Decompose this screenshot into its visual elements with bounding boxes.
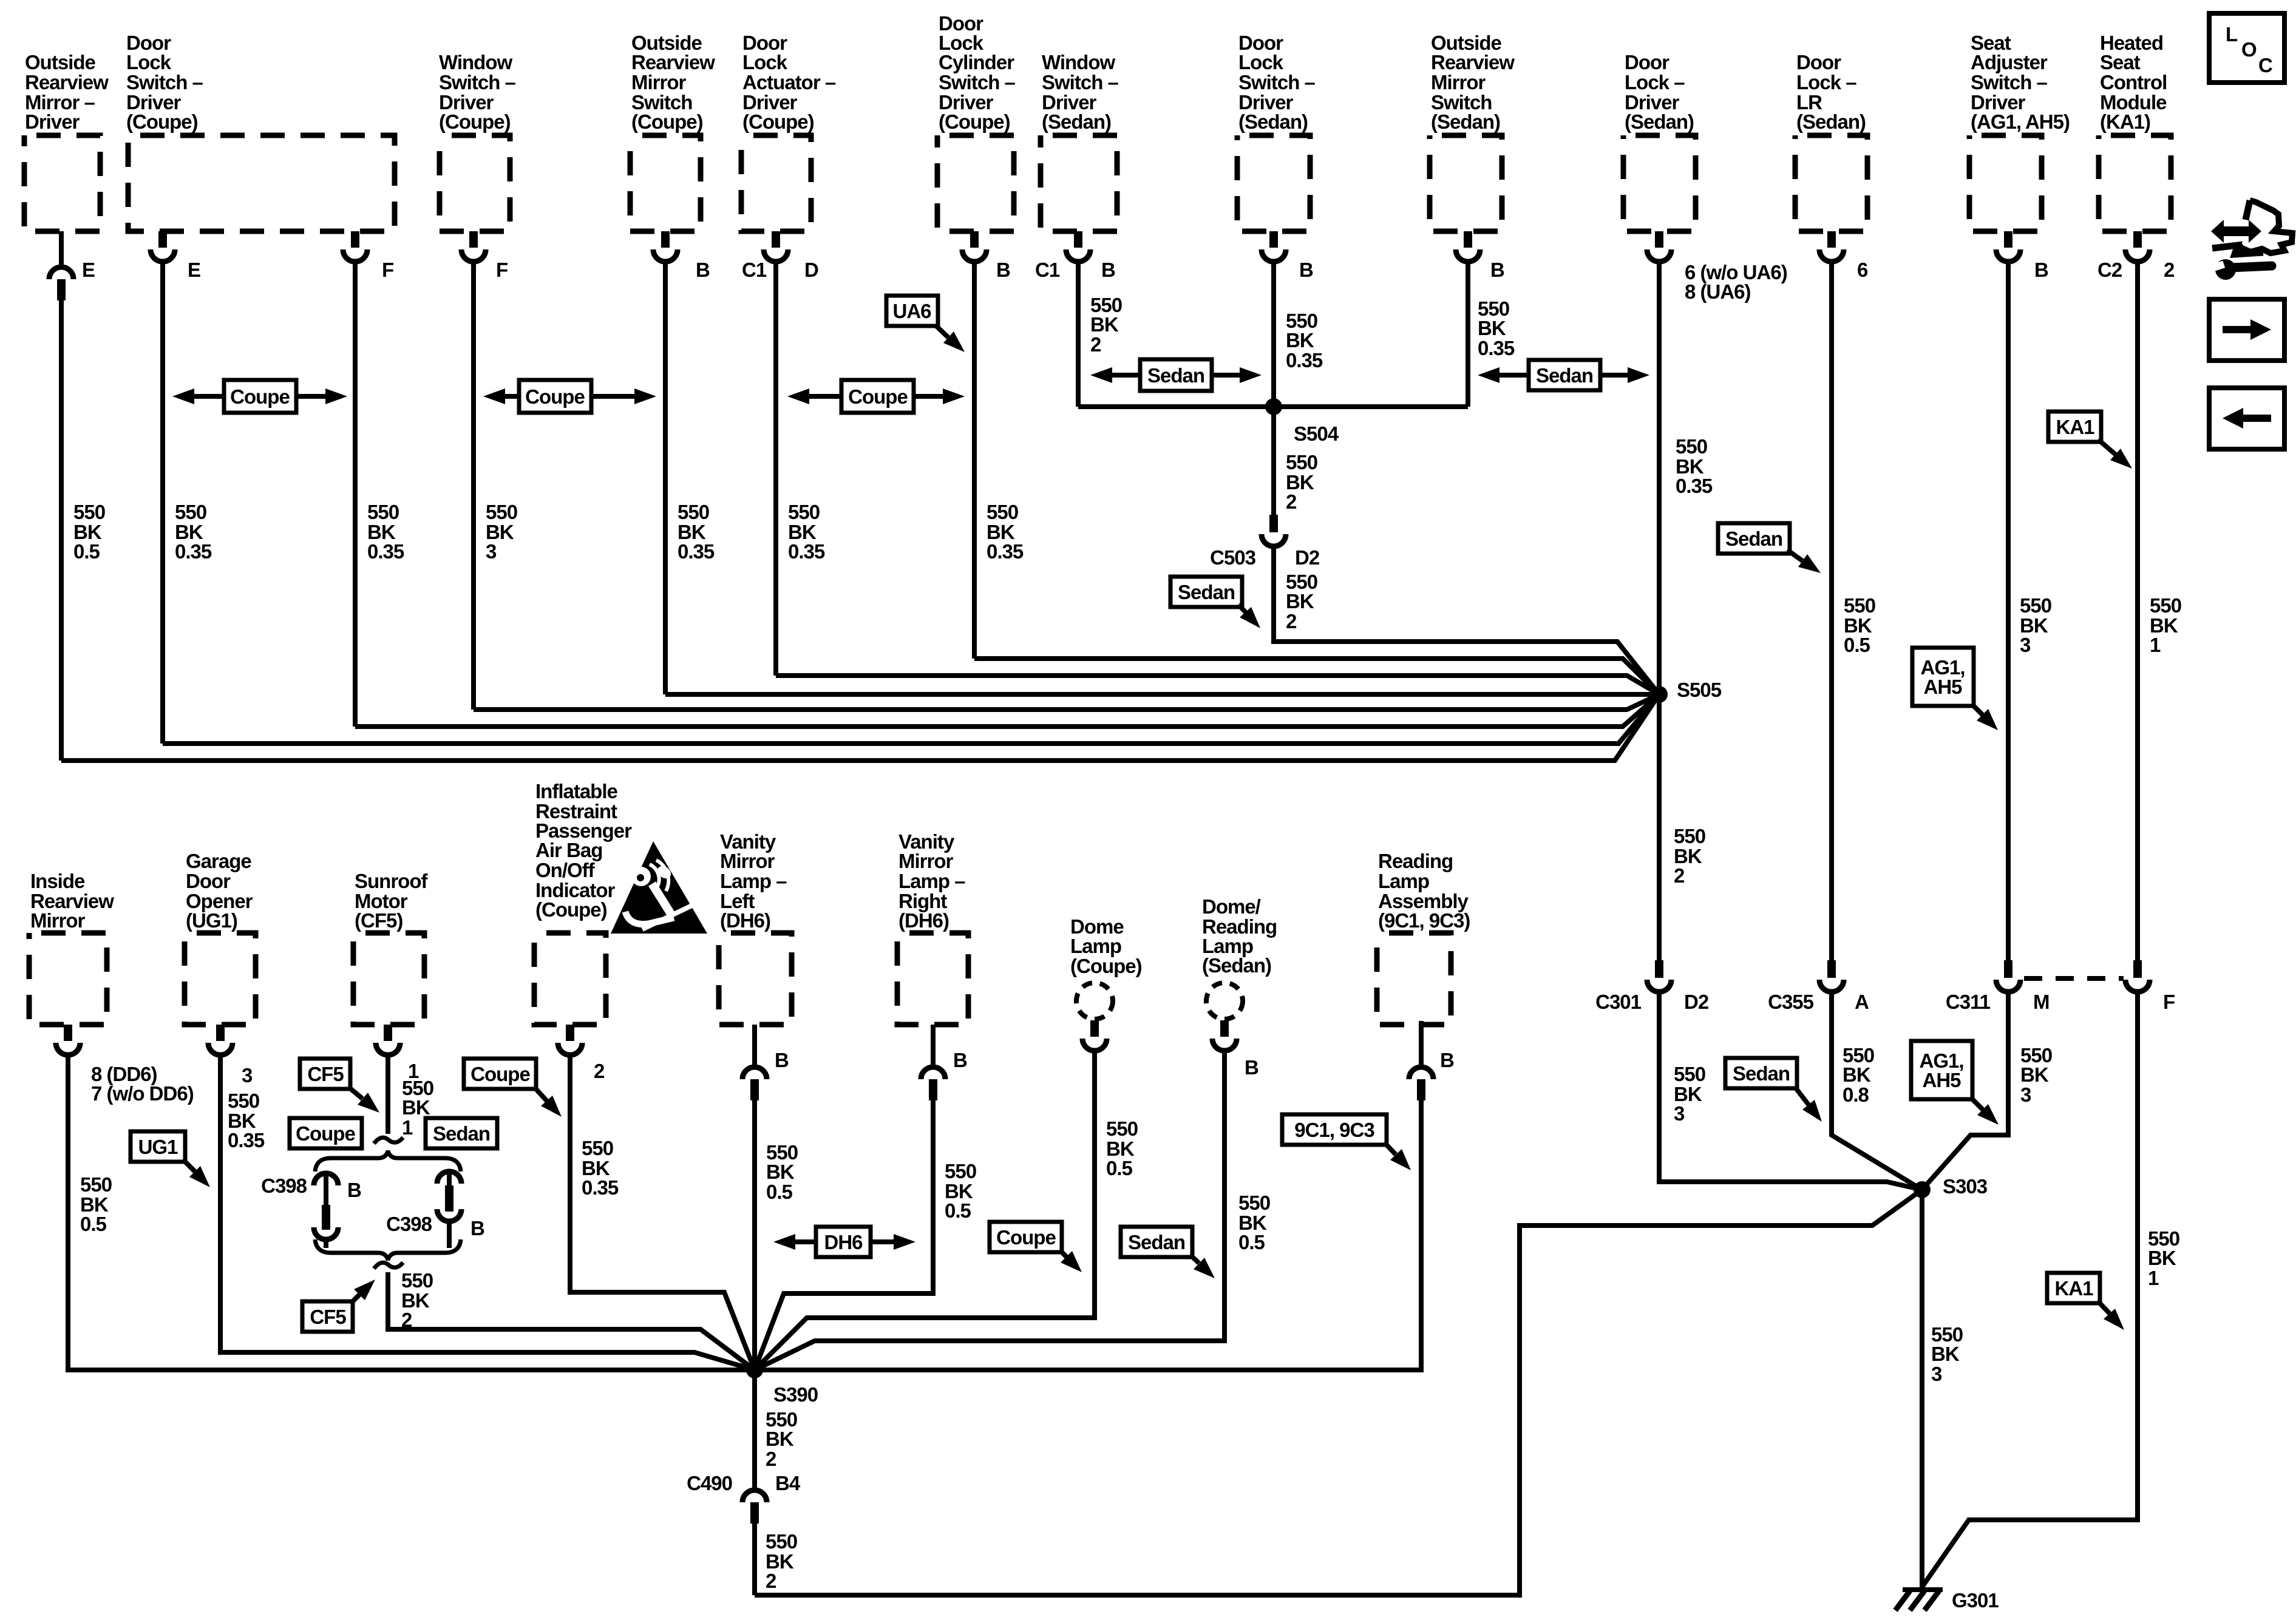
svg-text:Coupe: Coupe [230, 385, 290, 408]
svg-text:550: 550 [486, 501, 517, 523]
connector C398 right pair [447, 1171, 452, 1185]
harness repair icon (arrow, outline, wrench) [2223, 226, 2250, 236]
wire Door Lock Switch Coupe pin F [353, 263, 358, 727]
pin Vanity Mirror Lamp Left with connector [752, 1025, 757, 1065]
svg-text:Mirror: Mirror [1431, 71, 1486, 93]
svg-text:Lock –: Lock – [1796, 71, 1856, 93]
svg-text:(Sedan): (Sedan) [1431, 110, 1500, 133]
label box Sedan 2 with arrows [1500, 373, 1530, 378]
svg-text:8 (UA6): 8 (UA6) [1685, 280, 1751, 303]
svg-text:S303: S303 [1943, 1175, 1988, 1198]
svg-text:(Coupe): (Coupe) [126, 110, 198, 133]
svg-text:(Sedan): (Sedan) [1796, 110, 1866, 133]
svg-text:Lamp –: Lamp – [898, 870, 965, 892]
pin connector at x=2098 [1269, 231, 1278, 248]
wire bundle from Outside Rearview Mirror Switch Coupe [665, 692, 1659, 697]
svg-text:Rearview: Rearview [1431, 51, 1515, 73]
pin connector at x=1776 [1074, 231, 1082, 248]
svg-text:0.35: 0.35 [582, 1176, 619, 1199]
svg-text:550: 550 [945, 1160, 976, 1182]
svg-text:B: B [347, 1179, 361, 1201]
svg-text:Switch –: Switch – [1042, 71, 1119, 93]
splice S505 [1651, 686, 1668, 703]
svg-text:Sedan: Sedan [1128, 1231, 1185, 1253]
pin connector at x=268 [158, 231, 167, 248]
svg-text:DH6: DH6 [824, 1231, 863, 1253]
label box Coupe 3 with arrows [809, 394, 843, 399]
svg-text:Switch –: Switch – [1971, 71, 2048, 93]
svg-text:CF5: CF5 [307, 1063, 344, 1085]
label box UG1 [131, 1131, 185, 1162]
svg-text:550: 550 [73, 501, 105, 523]
pin Sunroof Motor [384, 1025, 392, 1041]
svg-text:0.35: 0.35 [1478, 337, 1515, 359]
wire Vanity Right to S390 [755, 1100, 933, 1370]
svg-text:F: F [496, 259, 508, 281]
splice S504 [1265, 398, 1282, 415]
label box KA1 lower [2047, 1273, 2100, 1303]
svg-text:Cylinder: Cylinder [939, 51, 1014, 73]
box Garage Door Opener UG1 [185, 933, 256, 1025]
svg-text:Driver: Driver [25, 110, 80, 133]
svg-text:3: 3 [2020, 634, 2031, 656]
svg-text:0.35: 0.35 [1286, 349, 1323, 371]
svg-text:BK: BK [1286, 590, 1314, 612]
svg-text:Mirror: Mirror [720, 850, 775, 872]
svg-text:CF5: CF5 [310, 1306, 346, 1328]
wire Door Lock Driver Sedan through S505 to C301 [1657, 263, 1662, 960]
svg-text:Garage: Garage [186, 850, 251, 872]
pin Air Bag Indicator [566, 1025, 574, 1041]
svg-text:S505: S505 [1677, 679, 1722, 701]
svg-text:0.35: 0.35 [678, 540, 715, 563]
svg-text:0.35: 0.35 [175, 540, 212, 563]
svg-text:S504: S504 [1294, 422, 1339, 445]
wire bundle into S505 from Door Lock Cylinder Switch [974, 659, 1659, 694]
label box Sedan pointing below C503 [1170, 577, 1242, 607]
svg-text:Sedan: Sedan [1733, 1062, 1790, 1085]
wire bundle from Door Lock Switch Coupe F [355, 694, 1659, 727]
svg-text:(Coupe): (Coupe) [1070, 955, 1142, 977]
pin Reading Lamp Assembly with connector [1419, 1021, 1424, 1065]
svg-text:Window: Window [439, 51, 512, 73]
svg-text:Inflatable: Inflatable [535, 780, 618, 802]
svg-text:C490: C490 [687, 1472, 732, 1494]
wire Outside Rearview Mirror Switch Sedan pin B to S504 line [1466, 263, 1470, 407]
pin connector at x=3017 [1827, 231, 1836, 248]
svg-text:0.35: 0.35 [987, 540, 1024, 563]
svg-text:(Sedan): (Sedan) [1042, 110, 1111, 133]
svg-text:Actuator –: Actuator – [742, 71, 836, 93]
svg-text:7 (w/o DD6): 7 (w/o DD6) [91, 1082, 194, 1105]
wire Vanity Left to S390 [752, 1100, 757, 1370]
svg-text:Air Bag: Air Bag [535, 839, 602, 861]
svg-text:UG1: UG1 [138, 1136, 178, 1158]
svg-text:3: 3 [486, 540, 497, 563]
svg-text:550: 550 [1674, 825, 1705, 847]
wire Sunroof Motor to split [385, 1056, 390, 1134]
svg-text:Control: Control [2100, 71, 2167, 93]
svg-text:Coupe: Coupe [996, 1226, 1056, 1249]
wire S303 to ground G301 [1920, 1190, 1924, 1588]
box Window Switch Driver Sedan [1041, 135, 1117, 231]
svg-text:C355: C355 [1768, 991, 1814, 1013]
label box AG1,AH5 upper [1912, 648, 1974, 706]
pin connector at x=1096 [661, 231, 670, 248]
svg-text:Lock: Lock [1238, 51, 1284, 73]
svg-text:550: 550 [2020, 594, 2051, 617]
box Door Lock LR Sedan [1795, 135, 1867, 231]
svg-text:2: 2 [766, 1570, 776, 1592]
svg-text:0.5: 0.5 [73, 540, 100, 563]
svg-text:3: 3 [242, 1064, 253, 1086]
svg-text:0.35: 0.35 [1676, 475, 1713, 497]
box Window Switch Driver Coupe [440, 135, 510, 231]
connector F [2133, 960, 2142, 978]
svg-text:3: 3 [1674, 1102, 1685, 1125]
svg-text:BK: BK [1478, 317, 1506, 339]
svg-text:550: 550 [1676, 435, 1707, 458]
svg-text:UA6: UA6 [892, 300, 931, 322]
svg-text:B: B [1490, 259, 1504, 281]
wire C355 to S303 [1832, 993, 1922, 1190]
connector C355 [1827, 960, 1836, 978]
svg-text:B: B [1101, 259, 1115, 281]
svg-text:C1: C1 [742, 259, 767, 281]
wire C490 to bottom run [752, 1524, 757, 1595]
svg-text:3: 3 [1931, 1363, 1942, 1385]
connector C311 [2004, 960, 2012, 978]
svg-text:Sedan: Sedan [1147, 364, 1204, 387]
svg-text:2: 2 [594, 1060, 605, 1082]
svg-text:2: 2 [401, 1309, 412, 1331]
label box AG1,AH5 lower [1911, 1041, 1972, 1099]
svg-text:Adjuster: Adjuster [1971, 51, 2048, 73]
wire Window Switch Coupe pin F [471, 263, 476, 710]
box Sunroof Motor CF5 [353, 933, 424, 1025]
svg-text:Inside: Inside [30, 870, 85, 892]
svg-text:2: 2 [1286, 490, 1297, 513]
svg-text:D: D [804, 259, 818, 281]
svg-text:550: 550 [2150, 594, 2181, 617]
svg-text:0.8: 0.8 [1843, 1083, 1869, 1106]
svg-text:B: B [953, 1049, 967, 1071]
svg-text:0.5: 0.5 [1844, 634, 1870, 656]
svg-text:BK: BK [1843, 1063, 1871, 1086]
label box Sedan pointing at Door Lock LR wire [1718, 523, 1790, 554]
wire C503 to S505 [1274, 547, 1659, 694]
svg-text:C1: C1 [1035, 259, 1060, 281]
svg-text:C2: C2 [2097, 259, 2122, 281]
wire Air Bag Indicator to S390 [570, 1056, 755, 1370]
wire S504 horizontal [1078, 404, 1468, 409]
svg-text:BK: BK [766, 1161, 795, 1183]
svg-text:AH5: AH5 [1922, 1069, 1961, 1091]
svg-text:BK: BK [2148, 1247, 2176, 1269]
svg-text:(DH6): (DH6) [898, 909, 949, 932]
box Door Lock Driver Sedan [1623, 135, 1696, 231]
svg-text:Dome/: Dome/ [1202, 895, 1261, 918]
box Heated Seat Control Module [2099, 135, 2171, 231]
svg-text:(Sedan): (Sedan) [1202, 954, 1271, 977]
svg-text:B: B [470, 1217, 484, 1239]
box Inside Rearview Mirror [29, 933, 107, 1025]
svg-text:(Coupe): (Coupe) [535, 898, 607, 921]
svg-text:BK: BK [1931, 1343, 1960, 1365]
svg-text:E: E [82, 259, 95, 281]
svg-text:550: 550 [1674, 1063, 1705, 1085]
connector C490 [742, 1490, 767, 1502]
svg-text:C398: C398 [386, 1213, 432, 1235]
box Door Lock Cylinder Switch Driver Coupe [937, 135, 1014, 231]
svg-text:550: 550 [987, 501, 1018, 523]
svg-text:550: 550 [1844, 594, 1875, 617]
svg-text:B: B [1440, 1049, 1454, 1071]
svg-text:M: M [2033, 991, 2050, 1013]
label box CF5 upper [300, 1059, 350, 1089]
pin Garage Door Opener [216, 1025, 225, 1041]
box Inflatable Restraint Air Bag Indicator [534, 933, 606, 1025]
pin Inside Rearview Mirror [64, 1025, 72, 1041]
label box Sedan pointing at C355 wire [1725, 1058, 1797, 1088]
wire Door Lock LR Sedan to C355 [1829, 263, 1834, 960]
label box UA6 [886, 296, 938, 326]
svg-text:B: B [996, 259, 1010, 281]
connector C503 [1269, 515, 1278, 532]
svg-text:Lock: Lock [742, 51, 788, 73]
svg-text:Coupe: Coupe [848, 385, 908, 408]
svg-text:0.5: 0.5 [766, 1181, 793, 1203]
svg-text:Mirror: Mirror [898, 850, 954, 872]
dashed link between connector C311 and F [2024, 976, 2124, 981]
svg-text:G301: G301 [1952, 1589, 1999, 1612]
box Door Lock Switch Driver Coupe [128, 135, 395, 231]
label box Sedan pointing at Dome/Reading wire [1121, 1227, 1192, 1257]
svg-text:1: 1 [2148, 1267, 2159, 1289]
pin E Outside Rearview Mirror Driver with inline connector [59, 231, 64, 265]
svg-text:Window: Window [1042, 51, 1115, 73]
label box DH6 with arrows [795, 1239, 818, 1244]
svg-text:Switch –: Switch – [126, 71, 203, 93]
brace merge bottom [315, 1239, 461, 1260]
svg-text:C311: C311 [1946, 991, 1991, 1013]
box Outside Rearview Mirror Switch Coupe [630, 135, 701, 231]
pin connector at x=3521 [2133, 231, 2142, 248]
svg-text:C301: C301 [1595, 991, 1642, 1013]
svg-text:AH5: AH5 [1923, 676, 1962, 698]
wire Heated Seat Control Module pin 2 to connector F [2135, 263, 2140, 960]
svg-text:Switch –: Switch – [939, 71, 1016, 93]
svg-text:B: B [775, 1049, 789, 1071]
svg-text:0.35: 0.35 [228, 1129, 265, 1151]
svg-text:6: 6 [1857, 259, 1868, 281]
svg-text:KA1: KA1 [2056, 416, 2094, 438]
box Door Lock Switch Driver Sedan [1237, 135, 1310, 231]
wire break curl top [374, 1137, 403, 1144]
LOC reference box [2209, 13, 2284, 83]
wire from Outside Rearview Mirror Driver pin E down to S505 bundle [59, 300, 64, 761]
box Door Lock Actuator Driver Coupe [741, 135, 811, 231]
svg-text:0.5: 0.5 [1106, 1157, 1133, 1179]
label box 9C1, 9C3 [1282, 1114, 1387, 1145]
svg-text:B4: B4 [775, 1472, 801, 1494]
svg-text:A: A [1855, 991, 1869, 1013]
svg-text:F: F [382, 259, 393, 281]
svg-text:1: 1 [2150, 634, 2161, 656]
svg-text:9C1, 9C3: 9C1, 9C3 [1294, 1119, 1374, 1141]
svg-text:Switch –: Switch – [439, 71, 516, 93]
wire bundle from Door Lock Actuator [776, 676, 1659, 694]
svg-text:550: 550 [80, 1173, 112, 1196]
pin connector at x=1278 [772, 231, 780, 248]
svg-text:C398: C398 [261, 1175, 307, 1197]
wire Door Lock Switch Sedan pin B through S504 to C503 [1271, 263, 1276, 515]
pin Vanity Mirror Lamp Right with connector [931, 1025, 936, 1065]
svg-text:B: B [2034, 259, 2048, 281]
svg-text:O: O [2241, 38, 2257, 61]
svg-text:Lamp: Lamp [1378, 870, 1429, 892]
airbag warning icon [611, 841, 707, 934]
label box Coupe C398 branch [290, 1118, 362, 1148]
pin Dome/Reading Lamp Sedan [1220, 1020, 1229, 1037]
dome/reading lamp (Sedan) dashed circle [1206, 983, 1243, 1019]
svg-text:Lock: Lock [126, 51, 172, 73]
svg-text:2: 2 [1286, 610, 1297, 632]
wire C398 merge to S390 [388, 1272, 755, 1370]
svg-text:(AG1, AH5): (AG1, AH5) [1971, 110, 2070, 133]
svg-text:Door: Door [1625, 51, 1669, 73]
wire Door Lock Switch Coupe pin E [160, 263, 165, 744]
svg-text:(UG1): (UG1) [186, 909, 237, 932]
svg-text:550: 550 [582, 1137, 613, 1159]
svg-text:(DH6): (DH6) [720, 909, 770, 932]
brace split top [315, 1151, 461, 1171]
wire bundle from Door Lock Switch Coupe E [163, 694, 1659, 744]
svg-text:2: 2 [1090, 333, 1101, 356]
svg-text:Coupe: Coupe [470, 1063, 530, 1085]
box Seat Adjuster Switch Driver [1969, 135, 2042, 231]
pin connector at x=585 [351, 231, 359, 248]
svg-text:550: 550 [788, 501, 820, 523]
svg-text:550: 550 [228, 1090, 259, 1112]
label box Coupe pointing at Air Bag wire [464, 1059, 536, 1089]
svg-text:C: C [2258, 54, 2272, 76]
wire Reading Lamp Assembly to S390 [755, 1100, 1421, 1370]
wire Window Switch Sedan pin B to S504 line [1076, 263, 1081, 407]
box Vanity Mirror Lamp Left [719, 933, 792, 1025]
back arrow box [2209, 388, 2284, 449]
svg-text:Lock –: Lock – [1625, 71, 1685, 93]
pin connector at x=1605 [970, 231, 979, 248]
svg-text:2: 2 [2164, 259, 2175, 281]
wire Heated Seat KA1 to ground [1921, 993, 2138, 1588]
wire S390 to C490 [752, 1370, 757, 1488]
svg-text:Switch –: Switch – [1238, 71, 1316, 93]
svg-text:0.5: 0.5 [1238, 1231, 1265, 1253]
pin connector at x=2418 [1464, 231, 1472, 248]
connector C301 [1655, 960, 1663, 978]
svg-text:Door: Door [186, 870, 231, 892]
svg-text:Mirror: Mirror [631, 71, 687, 93]
wire Door Lock Actuator Coupe pin D [773, 263, 778, 676]
svg-text:Sunroof: Sunroof [355, 870, 428, 892]
svg-text:2: 2 [766, 1448, 776, 1470]
svg-text:(Coupe): (Coupe) [439, 110, 511, 133]
svg-text:BK: BK [1286, 329, 1314, 351]
svg-text:D2: D2 [1684, 991, 1709, 1013]
wire Outside Rearview Mirror Switch Coupe pin B [663, 263, 668, 694]
label box KA1 upper [2048, 412, 2101, 442]
svg-text:Rearview: Rearview [631, 51, 715, 73]
wire Dome Lamp Coupe to S390 [755, 1052, 1095, 1370]
svg-text:B: B [1245, 1056, 1258, 1079]
label box Coupe pointing at Dome Lamp wire [990, 1222, 1062, 1252]
svg-text:S390: S390 [773, 1383, 818, 1406]
wire C301 to S303 [1659, 993, 1922, 1190]
svg-text:BK: BK [766, 1428, 794, 1450]
svg-text:Rearview: Rearview [25, 71, 109, 93]
svg-text:550: 550 [766, 1530, 797, 1553]
svg-text:0.5: 0.5 [945, 1199, 971, 1222]
svg-text:550: 550 [1238, 1192, 1270, 1214]
svg-text:Sedan: Sedan [433, 1122, 490, 1145]
svg-text:F: F [2163, 991, 2175, 1013]
svg-text:Sedan: Sedan [1725, 527, 1782, 550]
svg-text:550: 550 [175, 501, 206, 523]
wire Garage Door Opener to S390 [220, 1056, 755, 1370]
svg-text:Coupe: Coupe [296, 1122, 355, 1145]
svg-text:Sedan: Sedan [1178, 581, 1235, 603]
dome lamp (Coupe) dashed circle [1076, 983, 1113, 1019]
splice S390 [746, 1361, 763, 1378]
label box Coupe 1 with arrows [194, 394, 226, 399]
splice S303 [1914, 1181, 1931, 1198]
svg-text:(9C1, 9C3): (9C1, 9C3) [1378, 909, 1470, 932]
svg-text:550: 550 [367, 501, 399, 523]
box Outside Rearview Mirror Switch Sedan [1430, 135, 1502, 231]
svg-text:Sedan: Sedan [1536, 364, 1593, 387]
svg-text:B: B [696, 259, 710, 281]
wire Inside Rearview Mirror to S390 [68, 1056, 755, 1370]
svg-text:(Sedan): (Sedan) [1625, 110, 1694, 133]
svg-text:(Coupe): (Coupe) [631, 110, 703, 133]
label box CF5 lower [302, 1301, 353, 1332]
box Vanity Mirror Lamp Right [897, 933, 968, 1025]
svg-text:Mirror: Mirror [30, 909, 86, 932]
wire Seat Adjuster Switch to C311 [2006, 263, 2011, 960]
svg-text:550: 550 [1286, 451, 1317, 473]
svg-text:D2: D2 [1295, 546, 1320, 569]
svg-text:L: L [2226, 23, 2238, 46]
svg-text:(Sedan): (Sedan) [1238, 110, 1308, 133]
svg-text:550: 550 [401, 1269, 433, 1292]
svg-text:550: 550 [678, 501, 709, 523]
svg-text:(Coupe): (Coupe) [939, 110, 1010, 133]
svg-text:(Coupe): (Coupe) [742, 110, 814, 133]
ground G301 [1903, 1587, 1943, 1592]
svg-text:C503: C503 [1210, 546, 1256, 569]
svg-text:Coupe: Coupe [525, 385, 585, 408]
wire bundle from Outside Rearview Mirror Driver [61, 694, 1659, 761]
svg-text:550: 550 [1106, 1117, 1138, 1140]
label box Coupe 2 with arrows [505, 394, 521, 399]
svg-text:(KA1): (KA1) [2100, 110, 2150, 133]
svg-text:BK: BK [402, 1096, 430, 1119]
svg-text:KA1: KA1 [2054, 1277, 2093, 1300]
wire C311 to S303 [1922, 993, 2008, 1190]
label box Sedan C398 branch [426, 1118, 497, 1148]
box Reading Lamp Assembly [1377, 933, 1451, 1025]
